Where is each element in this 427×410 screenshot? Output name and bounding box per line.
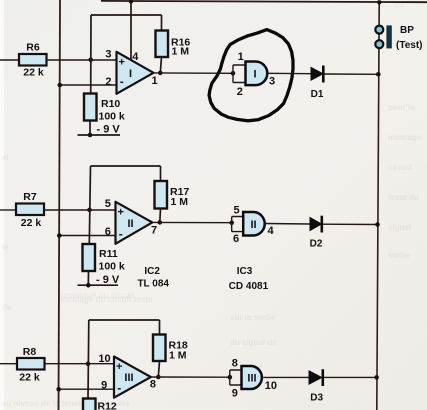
- svg-text:8: 8: [150, 379, 156, 391]
- svg-text:6: 6: [233, 233, 239, 245]
- svg-text:3: 3: [269, 76, 275, 88]
- svg-text:+: +: [117, 207, 123, 219]
- svg-text:montage: montage: [388, 133, 422, 142]
- op-amp U3 (IC2c, III): [98, 353, 156, 398]
- svg-text:I: I: [129, 68, 132, 80]
- svg-text:-: -: [120, 75, 124, 89]
- svg-text:10: 10: [98, 353, 110, 365]
- svg-text:R10: R10: [101, 98, 120, 110]
- svg-text:D3: D3: [310, 393, 323, 404]
- svg-text:TL 084: TL 084: [137, 279, 169, 290]
- wire: +9V top rail: [101, 1, 427, 2]
- svg-text:R12: R12: [98, 401, 117, 410]
- resistor R18: [153, 335, 188, 362]
- node: D1 junction on right bus: [376, 72, 381, 77]
- wire: R17 top lead: [160, 166, 162, 181]
- svg-text:III: III: [247, 373, 256, 385]
- svg-text:II: II: [250, 219, 256, 231]
- svg-text:1: 1: [151, 75, 157, 87]
- wire: feedback top row 3: [89, 319, 160, 321]
- diode D2: [310, 216, 323, 250]
- resistor R17: [155, 181, 190, 209]
- wire: R7 to op-amp pin 5: [44, 209, 116, 211]
- svg-text:BP: BP: [400, 25, 414, 36]
- svg-text:(Test): (Test): [396, 40, 422, 51]
- resistor R8: [17, 346, 45, 384]
- svg-text:IC3: IC3: [237, 266, 253, 277]
- svg-text:pour le: pour le: [388, 103, 415, 112]
- node: pin 6 junction on left bus: [57, 233, 62, 238]
- svg-text:D2: D2: [310, 239, 323, 250]
- node: pin 9 junction on left bus: [56, 387, 61, 392]
- wire: input row 2 to R7: [0, 209, 16, 211]
- AND gate III (IC3c): [232, 358, 277, 400]
- svg-text:22 k: 22 k: [21, 217, 42, 229]
- svg-text:R7: R7: [23, 191, 37, 203]
- wire: gate II output to D2: [265, 223, 310, 226]
- svg-text:2: 2: [105, 76, 111, 88]
- AND gate I (IC3a): [237, 51, 275, 98]
- wire: op-amp II output to gate II: [152, 221, 231, 223]
- svg-text:100 k: 100 k: [99, 261, 125, 273]
- svg-text:-: -: [117, 381, 121, 395]
- svg-text:III: III: [124, 372, 133, 384]
- wire: R18 top lead: [159, 320, 161, 335]
- wire: op-amp III output to gate III: [151, 376, 230, 378]
- wire: pin 4 supply lead: [130, 1, 132, 61]
- node: op-amp III output junction: [156, 375, 161, 380]
- svg-text:7: 7: [151, 225, 157, 237]
- node: op-amp II output junction: [158, 220, 163, 225]
- diode D1: [311, 66, 324, 101]
- ground: -9V rail row 2: [78, 274, 120, 288]
- svg-text:-: -: [119, 227, 123, 241]
- svg-text:el: el: [2, 153, 9, 162]
- svg-text:+: +: [118, 57, 124, 69]
- svg-text:22 k: 22 k: [19, 372, 40, 384]
- node: op-amp I output junction: [158, 71, 163, 76]
- wire: gate II input tie: [232, 217, 244, 232]
- svg-text:6: 6: [105, 226, 111, 238]
- wire: R17 bottom lead: [159, 209, 162, 223]
- resistor R6: [19, 42, 47, 79]
- wire: R16 bottom lead to output node: [160, 57, 161, 73]
- svg-text:4: 4: [267, 225, 274, 237]
- svg-text:IC2: IC2: [144, 266, 160, 277]
- wire: feedback vertical row 1: [90, 15, 92, 94]
- node: gate II input tie junction: [229, 220, 234, 225]
- wire: pin 6 wire from bus: [59, 235, 115, 237]
- svg-text:5: 5: [233, 205, 239, 217]
- wire: feedback vertical row 3: [87, 320, 90, 399]
- svg-text:5: 5: [105, 198, 111, 210]
- node: feedback junction row 3: [86, 361, 91, 366]
- svg-text:le: le: [2, 243, 9, 252]
- svg-text:2: 2: [237, 86, 243, 98]
- svg-text:1 M: 1 M: [171, 196, 189, 208]
- svg-text:sur la sortie: sur la sortie: [230, 313, 276, 322]
- svg-text:I: I: [253, 69, 256, 81]
- wire: R8 to op-amp pin 10: [45, 363, 115, 365]
- resistor R16: [156, 31, 191, 58]
- svg-text:sortie: sortie: [388, 251, 410, 260]
- test point BP: [375, 25, 422, 51]
- svg-text:1 M: 1 M: [169, 350, 187, 362]
- svg-text:teste du: teste du: [388, 193, 419, 202]
- wire: gate I output to D1: [267, 72, 311, 74]
- wire: R18 bottom lead: [158, 361, 159, 377]
- ground: -9V rail row 1: [78, 124, 121, 138]
- op-amp U1 (IC2a, I): [105, 49, 157, 94]
- svg-text:10: 10: [265, 380, 277, 392]
- wire: feedback vertical row 2: [89, 166, 90, 244]
- svg-text:R11: R11: [99, 248, 118, 260]
- node: D2 junction on right bus: [375, 222, 380, 227]
- svg-text:D1: D1: [311, 89, 324, 100]
- wire: R16 top lead: [161, 15, 163, 31]
- wire: D1 to right bus: [325, 73, 379, 75]
- svg-text:R6: R6: [26, 42, 40, 54]
- svg-text:R8: R8: [23, 346, 37, 358]
- node: gate III input tie junction: [228, 375, 233, 380]
- svg-text:4: 4: [132, 51, 139, 63]
- wire: D2 to right bus: [323, 223, 378, 225]
- node: pin 4 junction on top rail: [129, 0, 133, 4]
- node: gate I input tie junction: [231, 71, 236, 76]
- svg-text:8: 8: [232, 358, 238, 370]
- node: pin 2 junction on left bus: [58, 83, 63, 88]
- svg-text:+: +: [116, 361, 122, 373]
- wire: gate I input tie: [233, 65, 246, 83]
- wire: op-amp I output to gate I: [154, 72, 234, 74]
- svg-text:1: 1: [238, 51, 244, 63]
- op-amp U2 (IC2b, II): [105, 198, 157, 244]
- wire: R11 bottom lead: [87, 271, 89, 285]
- resistor R10: [84, 94, 125, 123]
- diode D3: [309, 369, 324, 403]
- label IC2: [137, 266, 169, 290]
- wire: R10 bottom lead: [89, 121, 91, 136]
- svg-text:9: 9: [101, 380, 107, 392]
- wire: input row 1 to R6: [0, 59, 19, 61]
- svg-text:1 M: 1 M: [172, 46, 190, 58]
- resistor R11: [83, 244, 125, 273]
- wire: gate III input tie: [230, 370, 242, 385]
- node: feedback junction row 1: [88, 58, 93, 63]
- node: feedback junction row 2: [87, 208, 92, 213]
- node: D3 junction on right bus: [374, 375, 379, 380]
- svg-text:II: II: [127, 218, 133, 230]
- svg-text:du signal de: du signal de: [230, 338, 277, 347]
- wire: right output bus (vertical): [377, 2, 379, 410]
- svg-text:CD 4081: CD 4081: [229, 281, 269, 292]
- svg-text:signal: signal: [388, 223, 411, 232]
- wire: D3 to right bus: [324, 376, 377, 378]
- label IC3: [229, 266, 269, 292]
- node: top rail / BP bus junction: [377, 0, 381, 4]
- svg-text:3: 3: [105, 49, 111, 61]
- svg-text:circuit: circuit: [388, 163, 412, 172]
- svg-text:9: 9: [232, 388, 238, 400]
- wire: pin 9 wire from bus: [59, 388, 114, 390]
- svg-text:100 k: 100 k: [99, 111, 125, 123]
- resistor R12 (cut off at bottom edge): [83, 399, 117, 410]
- resistor R7: [16, 191, 44, 229]
- svg-text:- 9 V: - 9 V: [96, 274, 120, 286]
- svg-text:remarque du circuit: remarque du circuit: [60, 291, 135, 300]
- hand-drawn loop around gate I: [209, 30, 293, 121]
- svg-text:de: de: [2, 303, 12, 312]
- wire: left reference bus (vertical, full height): [59, 0, 61, 410]
- wire: feedback top row 1: [91, 14, 162, 16]
- wire: gate III output to D3: [263, 376, 308, 378]
- svg-text:- 9 V: - 9 V: [97, 124, 121, 136]
- wire: pin 2 wire from bus: [60, 84, 117, 86]
- AND gate II (IC3b): [233, 205, 274, 246]
- wire: input row 3 to R8: [0, 363, 17, 365]
- svg-text:22 k: 22 k: [23, 67, 44, 79]
- wire: R6 to op-amp pin 3: [47, 59, 117, 61]
- wire: feedback top row 2: [91, 165, 161, 167]
